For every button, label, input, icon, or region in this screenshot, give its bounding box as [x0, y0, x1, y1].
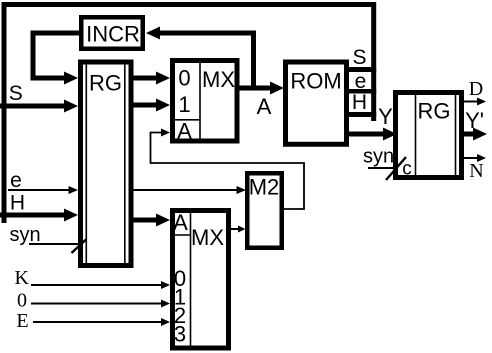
wire RG1 out to MX1 input 0: [134, 76, 159, 81]
svg-text:3: 3: [174, 322, 186, 347]
svg-text:S: S: [352, 46, 366, 69]
wire RG1 out to MX1 input 1: [134, 103, 159, 108]
svg-text:syn: syn: [363, 146, 394, 168]
svg-text:MX: MX: [191, 225, 224, 250]
svg-text:0: 0: [17, 290, 27, 312]
wire MX2 out to M2: [231, 228, 239, 230]
wire Y ROM to RG2: [349, 132, 385, 137]
wire H input into RG1: [0, 213, 66, 218]
svg-text:A: A: [177, 119, 192, 144]
block MX1 multiplexer: [173, 61, 238, 144]
svg-text:c: c: [402, 159, 412, 180]
wire E to MX2 input 2: [33, 321, 162, 323]
svg-text:MX: MX: [202, 67, 235, 92]
clock slash at RG1: [72, 240, 87, 254]
svg-text:INCR: INCR: [86, 22, 140, 47]
svg-text:K: K: [14, 267, 29, 289]
svg-text:e: e: [355, 70, 367, 93]
svg-text:M2: M2: [249, 175, 280, 200]
wire e pass RG1 to M2: [134, 189, 239, 191]
svg-text:N: N: [469, 160, 483, 182]
svg-text:e: e: [10, 169, 22, 192]
svg-text:0: 0: [178, 66, 190, 91]
wire syn into RG1 clock: [29, 243, 79, 245]
wire e input into RG1: [8, 189, 69, 191]
block INCR: [81, 17, 143, 49]
wire RG1 out to MX2 select A: [134, 218, 159, 223]
block M2: [247, 173, 282, 248]
svg-text:Y': Y': [465, 108, 484, 133]
wire A bus MX1 to ROM: [240, 86, 273, 91]
svg-text:ROM: ROM: [290, 69, 341, 94]
clock slash at RG2: [386, 157, 406, 180]
svg-text:syn: syn: [9, 224, 40, 246]
svg-text:E: E: [16, 310, 28, 332]
wire syn into RG2 clock: [368, 167, 398, 169]
block MX2 multiplexer: [173, 210, 229, 348]
wire M2 out loop to MX1 select A: [151, 133, 305, 210]
wire N output: [464, 157, 478, 159]
wire K to MX2 input 0: [31, 284, 162, 286]
block ROM: [286, 62, 347, 144]
wire S input into RG1: [0, 104, 66, 109]
wire INCR output loop to RG1 input: [33, 33, 80, 78]
wire 0 to MX2 input 1: [31, 303, 162, 305]
wire feedback bus (top / left side / right vertical): [4, 5, 374, 224]
svg-text:H: H: [352, 91, 367, 114]
wire A bus branch up to INCR input: [159, 33, 254, 88]
ROM output cells S e H (bars): [346, 46, 376, 115]
svg-text:RG: RG: [89, 71, 122, 96]
svg-text:Y: Y: [378, 104, 393, 129]
svg-text:RG: RG: [418, 99, 451, 124]
block RG1 register: [81, 62, 132, 266]
svg-text:H: H: [10, 192, 25, 215]
wire D output: [464, 101, 478, 103]
svg-text:A: A: [173, 210, 188, 235]
svg-text:D: D: [469, 78, 483, 100]
svg-text:S: S: [9, 82, 23, 105]
wire Y' output: [464, 132, 475, 137]
svg-text:1: 1: [178, 92, 190, 117]
svg-text:A: A: [257, 94, 272, 119]
block RG2 register: [396, 93, 462, 180]
